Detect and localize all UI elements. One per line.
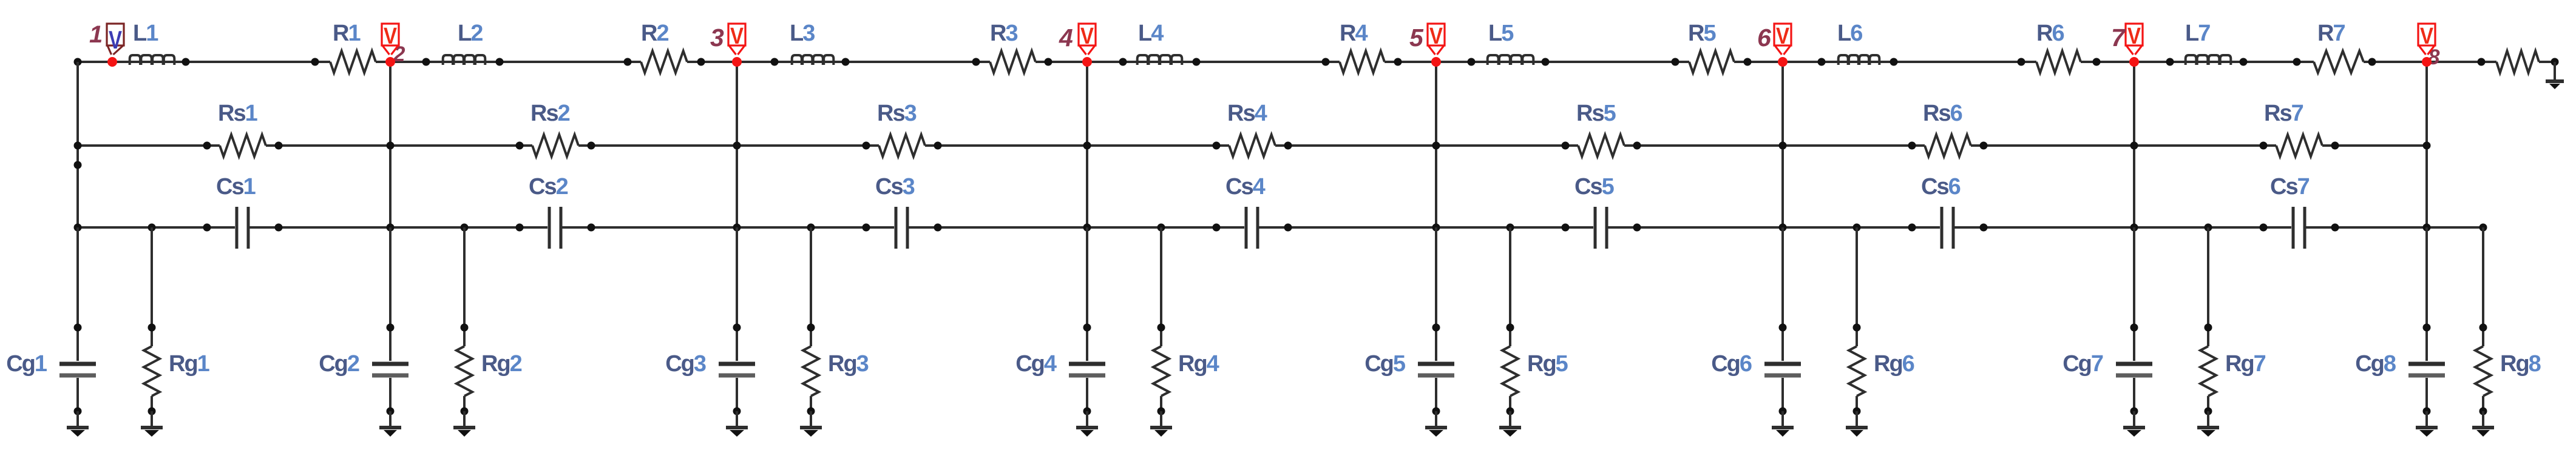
capacitor Cs2 <box>548 207 551 249</box>
svg-text:V: V <box>730 24 744 49</box>
node 2 red dot <box>385 57 395 67</box>
resistor Rg3 <box>810 227 812 346</box>
wire node column 1 <box>76 62 79 227</box>
node 8 red dot <box>2422 57 2432 67</box>
wire Cs rail segment 2 <box>249 226 547 229</box>
wire Rs rail last segment <box>2322 144 2427 147</box>
probe V node 6 <box>1774 24 1791 45</box>
capacitor Cg1 <box>76 227 79 361</box>
svg-text:Cs6: Cs6 <box>1921 174 1961 200</box>
ground below Rg2 <box>463 411 466 428</box>
wire Rs rail segment 1 <box>78 144 220 147</box>
inductor L7 <box>2186 55 2231 65</box>
svg-text:Rs2: Rs2 <box>530 101 570 126</box>
wire Cs rail segment 5 <box>1259 226 1593 229</box>
svg-text:Rs4: Rs4 <box>1227 101 1267 126</box>
resistor R4 <box>1340 51 1385 73</box>
ground below Rg5 <box>1509 411 1511 428</box>
wire Rs rail segment 3 <box>578 144 879 147</box>
wire top rail segment 6 <box>1734 61 2036 63</box>
ground below Rg3 <box>810 411 812 428</box>
svg-text:Cg4: Cg4 <box>1015 351 1057 377</box>
svg-text:V: V <box>1776 24 1790 49</box>
svg-text:V: V <box>2420 24 2434 49</box>
svg-text:7: 7 <box>2111 24 2126 52</box>
svg-text:Rs5: Rs5 <box>1576 101 1616 126</box>
resistor Rs1 <box>220 135 266 156</box>
ground below Cg7 <box>2133 411 2135 428</box>
wire top rail segment 4 <box>1035 61 1340 63</box>
ground below Cg8 <box>2425 411 2428 428</box>
wire Cs rail segment 4 <box>909 226 1244 229</box>
inductor L4 <box>1137 55 1182 65</box>
svg-text:V: V <box>1080 24 1094 49</box>
svg-text:V: V <box>2127 24 2141 49</box>
svg-text:Rs7: Rs7 <box>2264 101 2303 126</box>
probe V node 3 <box>728 24 745 45</box>
resistor Rs7 <box>2276 135 2322 156</box>
resistor Rg1 <box>151 227 153 346</box>
node 6 red dot <box>1778 57 1788 67</box>
resistor R2 <box>641 51 687 73</box>
svg-text:Cs3: Cs3 <box>875 174 915 200</box>
resistor Rg6 <box>1856 227 1858 346</box>
svg-text:R2: R2 <box>641 21 668 46</box>
svg-text:R6: R6 <box>2036 21 2064 46</box>
svg-text:L3: L3 <box>790 21 815 46</box>
resistor Rs6 <box>1925 135 1971 156</box>
node 1 red dot <box>107 57 117 67</box>
capacitor Cs6 <box>1940 207 1944 249</box>
svg-text:6: 6 <box>1757 24 1772 52</box>
svg-text:L2: L2 <box>458 21 483 46</box>
resistor Rg5 <box>1509 227 1511 346</box>
resistor R5 <box>1689 51 1734 73</box>
wire top rail segment 3 <box>687 61 990 63</box>
inductor L3 <box>792 55 834 65</box>
svg-text:Rg8: Rg8 <box>2500 351 2541 377</box>
svg-text:L6: L6 <box>1837 21 1862 46</box>
junction dots on Rs rail <box>74 142 82 150</box>
svg-text:Cs4: Cs4 <box>1225 174 1266 200</box>
wire top rail segment 5 <box>1385 61 1689 63</box>
junction dots on Cs rail <box>74 224 82 232</box>
wire Rs rail segment 4 <box>925 144 1229 147</box>
svg-text:L4: L4 <box>1138 21 1164 46</box>
probe V node 1 <box>107 24 124 45</box>
probe V node 7 <box>2126 24 2143 45</box>
svg-text:Rg4: Rg4 <box>1178 351 1219 377</box>
capacitor Cg2 <box>389 227 391 361</box>
ground below Cg3 <box>736 411 738 428</box>
svg-text:Cs2: Cs2 <box>529 174 568 200</box>
resistor R6 <box>2036 51 2081 73</box>
wire Cs rail segment 3 <box>562 226 894 229</box>
junction dots on top rail <box>74 58 82 66</box>
capacitor Cs7 <box>2292 207 2295 249</box>
node 3 red dot <box>732 57 742 67</box>
svg-text:5: 5 <box>1409 24 1424 52</box>
svg-text:Rg2: Rg2 <box>481 351 522 377</box>
capacitor Cs5 <box>1594 207 1597 249</box>
probe V node 5 <box>1428 24 1445 45</box>
capacitor Cs4 <box>1245 207 1248 249</box>
ground below Rg6 <box>1856 411 1858 428</box>
svg-text:L7: L7 <box>2185 21 2210 46</box>
svg-text:4: 4 <box>1059 24 1073 52</box>
capacitor Cg3 <box>736 227 738 361</box>
ground below Rg7 <box>2207 411 2209 428</box>
probe V node 4 <box>1079 24 1096 45</box>
svg-text:R7: R7 <box>2317 21 2345 46</box>
ground below Cg1 <box>76 411 79 428</box>
svg-text:L5: L5 <box>1488 21 1514 46</box>
capacitor Cs3 <box>895 207 898 249</box>
capacitor Cg7 <box>2133 227 2135 361</box>
svg-text:V: V <box>384 24 398 49</box>
ground below Cg2 <box>389 411 391 428</box>
resistor Rg8 <box>2482 227 2484 346</box>
inductor L2 <box>443 55 486 65</box>
inductor L5 <box>1488 55 1534 65</box>
resistor Rg2 <box>463 227 466 346</box>
capacitor Cg5 <box>1435 227 1437 361</box>
wire Cs rail segment 7 <box>1954 226 2291 229</box>
svg-text:Cg7: Cg7 <box>2062 351 2103 377</box>
wire top rail right end <box>2539 61 2555 63</box>
wire node column 5 <box>1435 62 1437 227</box>
svg-text:Rs6: Rs6 <box>1923 101 1962 126</box>
ground at termination <box>2554 62 2556 79</box>
svg-text:Rg3: Rg3 <box>828 351 869 377</box>
wire top rail segment 2 <box>376 61 641 63</box>
wire Rs rail segment 2 <box>266 144 532 147</box>
ground below Cg4 <box>1086 411 1088 428</box>
resistor Rg7 <box>2207 227 2209 346</box>
capacitor Cg6 <box>1781 227 1784 361</box>
ground below Rg4 <box>1160 411 1162 428</box>
node 7 red dot <box>2129 57 2139 67</box>
ground below Rg8 <box>2482 411 2484 428</box>
wire top rail segment 1 <box>78 61 330 63</box>
resistor R7 <box>2314 51 2364 73</box>
capacitor Cg8 <box>2425 227 2428 361</box>
wire node column 7 <box>2133 62 2135 227</box>
wire Cs rail segment 6 <box>1608 226 1940 229</box>
ground below Cg5 <box>1435 411 1437 428</box>
wire Cs rail segment 1 <box>78 226 235 229</box>
svg-text:Cg1: Cg1 <box>6 351 47 377</box>
svg-text:Cg8: Cg8 <box>2355 351 2396 377</box>
svg-text:Rg7: Rg7 <box>2225 351 2266 377</box>
capacitor Cs1 <box>236 207 239 249</box>
svg-text:R3: R3 <box>990 21 1017 46</box>
junction dot left column <box>74 161 82 169</box>
resistor Rs2 <box>532 135 578 156</box>
wire node column 4 <box>1086 62 1088 227</box>
resistor Rs3 <box>879 135 925 156</box>
wire top rail segment 7 <box>2081 61 2314 63</box>
svg-text:Rg1: Rg1 <box>169 351 210 377</box>
svg-text:Cs7: Cs7 <box>2270 174 2310 200</box>
svg-text:Cs5: Cs5 <box>1574 174 1615 200</box>
svg-text:R5: R5 <box>1688 21 1716 46</box>
svg-text:Rg6: Rg6 <box>1874 351 1914 377</box>
svg-text:1: 1 <box>89 21 102 48</box>
resistor Rload (termination) <box>2496 51 2539 73</box>
probe V node 2 <box>382 24 399 45</box>
resistor Rs5 <box>1578 135 1624 156</box>
wire Rs rail segment 5 <box>1275 144 1578 147</box>
svg-text:Cg5: Cg5 <box>1364 351 1406 377</box>
svg-text:Cg2: Cg2 <box>319 351 359 377</box>
svg-text:V: V <box>1429 24 1443 49</box>
svg-text:R1: R1 <box>333 21 361 46</box>
resistor R1 <box>330 51 376 73</box>
probe V node 8 <box>2418 24 2435 45</box>
resistor Rs4 <box>1229 135 1275 156</box>
inductor L1 <box>130 55 175 65</box>
svg-text:Rg5: Rg5 <box>1527 351 1568 377</box>
resistor Rg4 <box>1160 227 1162 346</box>
wire Cs rail last segment <box>2306 226 2483 229</box>
wire node column 2 <box>389 62 391 227</box>
wire node column 3 <box>736 62 738 227</box>
svg-text:R4: R4 <box>1340 21 1368 46</box>
capacitor Cg4 <box>1086 227 1088 361</box>
ground below Cg6 <box>1781 411 1784 428</box>
node 4 red dot <box>1082 57 1092 67</box>
svg-text:Cg6: Cg6 <box>1711 351 1752 377</box>
wire Rs rail segment 7 <box>1971 144 2276 147</box>
inductor L6 <box>1839 55 1880 65</box>
wire top rail segment 8 <box>2364 61 2496 63</box>
svg-text:Rs1: Rs1 <box>218 101 258 126</box>
wire Rs rail segment 6 <box>1624 144 1925 147</box>
wire node column 6 <box>1781 62 1784 227</box>
node 5 red dot <box>1431 57 1441 67</box>
resistor R3 <box>990 51 1035 73</box>
svg-text:V: V <box>109 25 122 54</box>
ground below Rg1 <box>151 411 153 428</box>
svg-text:3: 3 <box>710 24 724 52</box>
svg-text:L1: L1 <box>133 21 158 46</box>
wire node column 8 <box>2425 62 2428 227</box>
svg-text:Cs1: Cs1 <box>216 174 256 200</box>
svg-text:Rs3: Rs3 <box>877 101 917 126</box>
svg-text:Cg3: Cg3 <box>665 351 706 377</box>
